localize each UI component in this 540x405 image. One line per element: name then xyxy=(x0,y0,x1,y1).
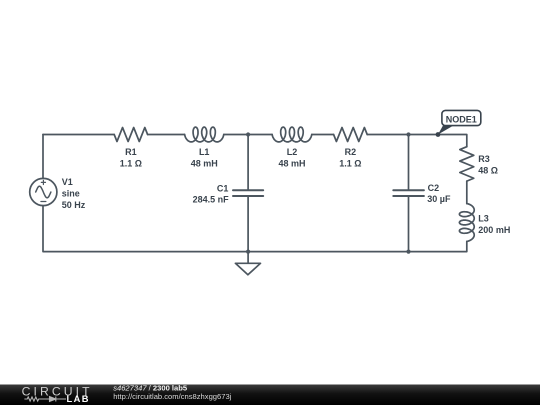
svg-text:48 mH: 48 mH xyxy=(278,159,305,169)
wire L1 to node A xyxy=(224,134,272,136)
inductor L1 xyxy=(185,127,224,142)
svg-text:L2: L2 xyxy=(287,147,298,157)
node NODE1 flag pointer xyxy=(438,126,454,135)
inductor L2 xyxy=(272,127,312,142)
svg-text:http://circuitlab.com/cns8zhxg: http://circuitlab.com/cns8zhxgg673j xyxy=(113,392,231,401)
wire C2 branch xyxy=(408,135,410,252)
svg-text:C1: C1 xyxy=(217,183,229,193)
node A junction dot xyxy=(246,132,250,136)
svg-text:L3: L3 xyxy=(478,214,489,224)
svg-text:284.5 nF: 284.5 nF xyxy=(193,194,230,204)
wire R2 to top-right corner xyxy=(312,134,334,136)
ground xyxy=(235,263,260,275)
svg-text:s4627347 / 2300 lab5: s4627347 / 2300 lab5 xyxy=(113,383,188,392)
svg-text:50 Hz: 50 Hz xyxy=(62,200,86,210)
svg-text:200 mH: 200 mH xyxy=(478,225,510,235)
capacitor C1 xyxy=(233,190,263,196)
node C2 bottom junction dot xyxy=(406,250,410,254)
resistor R1 xyxy=(114,128,147,142)
svg-text:1.1 Ω: 1.1 Ω xyxy=(339,159,361,169)
svg-text:48 Ω: 48 Ω xyxy=(478,165,498,175)
wire top rail left segment xyxy=(43,134,114,136)
inductor L3 xyxy=(459,204,474,242)
svg-text:V1: V1 xyxy=(62,177,73,187)
node NODE1 anchor dot xyxy=(436,132,441,137)
wire left rail top xyxy=(42,135,44,179)
wire L3 to bottom rail xyxy=(43,206,467,252)
svg-text:R2: R2 xyxy=(345,147,357,157)
logo symbol xyxy=(24,397,66,402)
wire R3 to L3 xyxy=(466,181,468,204)
svg-text:sine: sine xyxy=(62,188,80,198)
svg-text:NODE1: NODE1 xyxy=(446,115,477,125)
resistor R3 xyxy=(460,147,474,181)
wire C1 branch xyxy=(247,135,249,252)
svg-text:1.1 Ω: 1.1 Ω xyxy=(120,159,142,169)
svg-text:30 µF: 30 µF xyxy=(427,194,451,204)
node B junction dot xyxy=(406,132,410,136)
wire top rail right segment xyxy=(367,135,467,147)
node NODE1 flag box xyxy=(442,110,481,125)
svg-text:R1: R1 xyxy=(125,147,137,157)
svg-text:C2: C2 xyxy=(428,183,440,193)
svg-text:R3: R3 xyxy=(478,154,490,164)
capacitor C2 xyxy=(393,190,424,196)
wire ground stem xyxy=(247,252,249,264)
wire R1 to L1 xyxy=(148,134,185,136)
svg-text:LAB: LAB xyxy=(67,394,90,404)
svg-text:L1: L1 xyxy=(199,147,210,157)
resistor R2 xyxy=(334,128,368,142)
node ground junction dot xyxy=(246,250,250,254)
voltage source V1 xyxy=(30,178,57,205)
footer bar xyxy=(0,385,540,405)
svg-text:48 mH: 48 mH xyxy=(191,159,218,169)
